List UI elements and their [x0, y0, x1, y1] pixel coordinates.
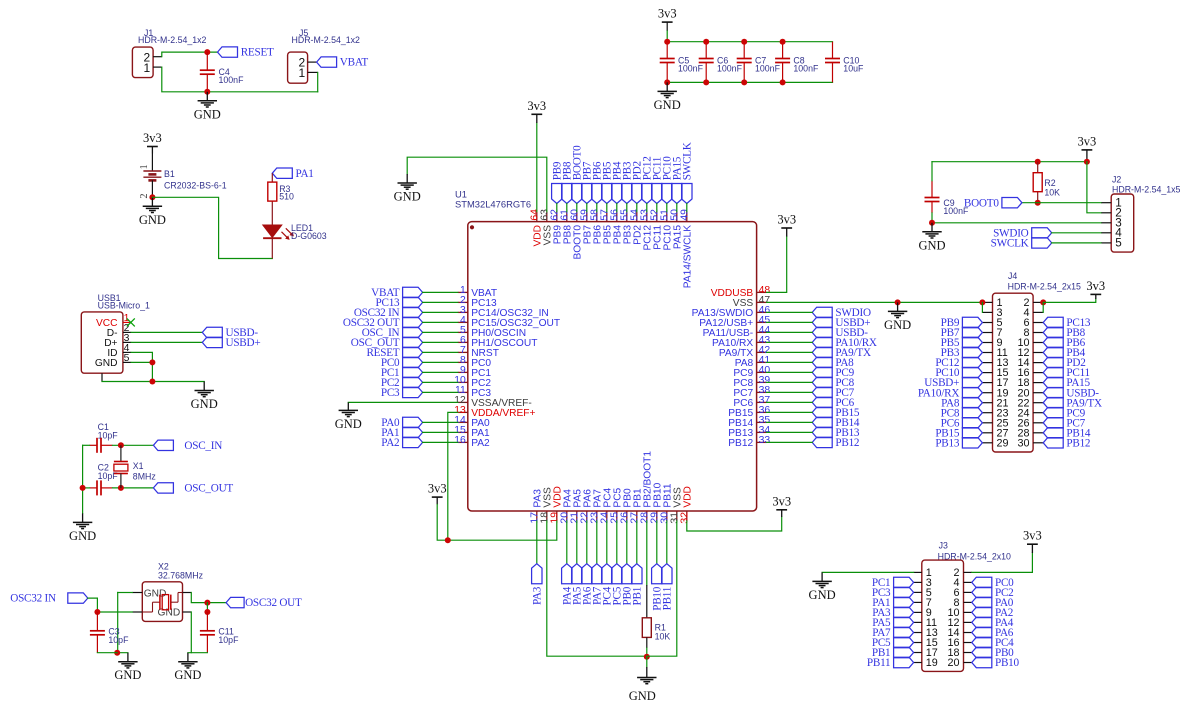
svg-text:USB-Micro_1: USB-Micro_1 [98, 301, 150, 311]
svg-text:49: 49 [679, 209, 690, 221]
svg-text:STM32L476RGT6: STM32L476RGT6 [455, 199, 531, 210]
svg-text:100nF: 100nF [755, 63, 781, 73]
svg-text:PC3: PC3 [381, 387, 400, 399]
svg-text:30: 30 [1017, 437, 1029, 449]
svg-text:GND: GND [114, 668, 141, 682]
svg-text:5: 5 [124, 353, 130, 364]
svg-text:5: 5 [1115, 237, 1122, 250]
svg-text:HDR-M-2.54_1x2: HDR-M-2.54_1x2 [292, 35, 361, 45]
svg-text:OSC_IN: OSC_IN [184, 440, 222, 452]
svg-text:100nF: 100nF [219, 75, 245, 85]
svg-text:B1: B1 [164, 169, 175, 179]
svg-text:3v3: 3v3 [777, 213, 796, 227]
svg-text:R2: R2 [1044, 178, 1055, 188]
svg-text:J4: J4 [1008, 271, 1017, 281]
svg-text:10K: 10K [655, 632, 671, 642]
svg-text:2: 2 [139, 194, 150, 199]
svg-text:GND: GND [394, 190, 421, 204]
svg-text:33: 33 [759, 435, 771, 446]
svg-text:19: 19 [926, 657, 938, 669]
svg-text:GND: GND [69, 529, 96, 543]
svg-text:10pF: 10pF [108, 635, 129, 645]
svg-text:PA1: PA1 [296, 168, 314, 180]
svg-text:100nF: 100nF [793, 63, 819, 73]
svg-text:GND: GND [95, 358, 118, 369]
svg-text:GND: GND [194, 107, 221, 121]
svg-text:3v3: 3v3 [428, 482, 447, 496]
svg-text:RESET: RESET [241, 47, 274, 59]
svg-text:1: 1 [139, 164, 150, 169]
svg-text:PB10: PB10 [995, 657, 1020, 669]
svg-text:PB12: PB12 [1066, 437, 1090, 449]
svg-text:HDR-M-2.54_1x2: HDR-M-2.54_1x2 [138, 35, 207, 45]
svg-text:HDR-M-2.54_2x15: HDR-M-2.54_2x15 [1008, 282, 1081, 292]
svg-text:J3: J3 [939, 540, 948, 550]
svg-text:PB11: PB11 [661, 587, 673, 610]
svg-text:PA14/SWCLK: PA14/SWCLK [683, 225, 694, 288]
svg-text:PB12: PB12 [728, 438, 753, 449]
svg-text:PB1: PB1 [631, 587, 643, 606]
svg-text:PA2: PA2 [381, 437, 399, 449]
svg-text:3v3: 3v3 [658, 7, 677, 21]
svg-text:VBAT: VBAT [340, 57, 369, 69]
svg-text:GND: GND [884, 318, 911, 332]
svg-text:32: 32 [679, 512, 690, 524]
svg-text:OSC_OUT: OSC_OUT [184, 483, 233, 495]
svg-text:BOOT0: BOOT0 [964, 197, 999, 209]
svg-text:GND: GND [139, 213, 166, 227]
svg-text:X1: X1 [133, 461, 144, 471]
svg-text:GND: GND [174, 668, 201, 682]
svg-text:510: 510 [279, 191, 294, 201]
svg-text:GND: GND [918, 238, 945, 252]
svg-text:3v3: 3v3 [1023, 529, 1042, 543]
svg-text:VDD: VDD [683, 486, 694, 508]
svg-text:3v3: 3v3 [1086, 279, 1105, 293]
svg-text:PA2: PA2 [471, 438, 490, 449]
svg-text:SWCLK: SWCLK [991, 238, 1029, 250]
svg-text:PA3: PA3 [531, 586, 543, 605]
svg-text:1: 1 [299, 66, 306, 80]
svg-text:SWCLK: SWCLK [681, 142, 693, 180]
svg-text:8MHz: 8MHz [133, 471, 156, 481]
svg-text:PB13: PB13 [935, 437, 960, 449]
svg-text:CR2032-BS-6-1: CR2032-BS-6-1 [164, 180, 227, 190]
svg-text:GND: GND [335, 417, 362, 431]
svg-text:10K: 10K [1044, 187, 1060, 197]
svg-text:J2: J2 [1112, 174, 1121, 184]
svg-text:OSC32 OUT: OSC32 OUT [245, 597, 302, 609]
svg-text:29: 29 [997, 437, 1009, 449]
svg-text:100nF: 100nF [943, 206, 969, 216]
svg-text:GND: GND [191, 397, 218, 411]
svg-text:10uF: 10uF [843, 63, 864, 73]
svg-text:HDR-M-2.54_1x5: HDR-M-2.54_1x5 [1112, 185, 1181, 195]
svg-text:20: 20 [947, 657, 959, 669]
svg-text:16: 16 [454, 435, 466, 446]
svg-text:GND: GND [629, 689, 656, 703]
svg-text:100nF: 100nF [678, 63, 704, 73]
svg-text:10pF: 10pF [218, 635, 239, 645]
svg-text:USBD+: USBD+ [226, 337, 261, 349]
svg-text:GND: GND [654, 98, 681, 112]
svg-text:1: 1 [144, 61, 151, 75]
svg-text:OSC32 IN: OSC32 IN [10, 593, 56, 605]
svg-text:10pF: 10pF [98, 471, 119, 481]
svg-text:3v3: 3v3 [527, 99, 546, 113]
svg-text:GND: GND [809, 588, 836, 602]
svg-text:3v3: 3v3 [1078, 134, 1097, 148]
svg-text:PB12: PB12 [835, 437, 859, 449]
svg-text:3v3: 3v3 [143, 131, 162, 145]
svg-text:32.768MHz: 32.768MHz [158, 570, 203, 580]
svg-text:PB11: PB11 [867, 657, 890, 669]
svg-text:D-G0603: D-G0603 [291, 231, 327, 241]
svg-text:100nF: 100nF [717, 63, 743, 73]
svg-text:3v3: 3v3 [772, 494, 791, 508]
